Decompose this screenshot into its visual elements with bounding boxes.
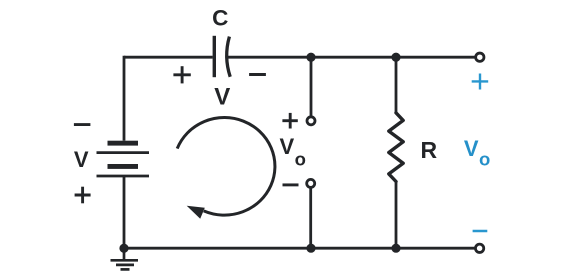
- wire middle branch lower: [309, 183, 312, 248]
- capacitor C plate right (curved): [227, 37, 231, 77]
- junction dot bottom middle node: [306, 244, 315, 253]
- wire bottom rail: [124, 247, 480, 250]
- svg-text:o: o: [295, 148, 306, 169]
- loop current arrowhead: [187, 206, 205, 219]
- output label minus (blue): [473, 230, 488, 233]
- battery V1 plate thick top (negative): [108, 141, 139, 146]
- battery V1 plate thick lower: [108, 164, 139, 169]
- node terminal middle bottom: [307, 179, 315, 187]
- output terminal bottom right: [475, 244, 483, 252]
- svg-text:R: R: [420, 137, 437, 163]
- capacitor label plus: [173, 66, 190, 83]
- wire top rail left segment: [124, 56, 213, 59]
- battery label plus: [75, 187, 91, 204]
- capacitor C plate left (straight): [213, 36, 216, 77]
- svg-text:V: V: [464, 136, 479, 161]
- wire top rail right segment: [226, 56, 480, 59]
- svg-text:o: o: [479, 148, 490, 169]
- svg-text:V: V: [280, 134, 295, 159]
- loop current arrow arc: [177, 118, 275, 216]
- junction dot bottom ground node: [119, 244, 128, 253]
- middle label plus: [282, 113, 297, 129]
- wire resistor bottom lead: [395, 182, 398, 249]
- junction dot bottom resistor node: [391, 244, 400, 253]
- battery V1 plate thin upper (long): [97, 151, 150, 154]
- junction dot top middle node: [306, 53, 315, 62]
- middle label minus: [283, 183, 299, 186]
- wire left vertical upper: [123, 56, 126, 141]
- wire resistor top lead: [395, 57, 398, 113]
- svg-text:C: C: [212, 6, 228, 31]
- battery V1 plate thin bottom (positive): [97, 175, 150, 178]
- ground: [111, 248, 139, 269]
- battery label minus: [74, 123, 91, 126]
- wire middle branch upper: [310, 57, 313, 121]
- svg-text:V: V: [214, 84, 230, 111]
- capacitor label minus: [249, 73, 266, 76]
- junction dot top resistor node: [391, 53, 400, 62]
- output label plus (blue): [472, 74, 489, 90]
- output terminal top right: [476, 53, 484, 61]
- node terminal middle top: [307, 117, 315, 125]
- svg-text:V: V: [74, 147, 89, 172]
- resistor R zigzag: [389, 113, 403, 182]
- wire left vertical lower: [123, 176, 126, 248]
